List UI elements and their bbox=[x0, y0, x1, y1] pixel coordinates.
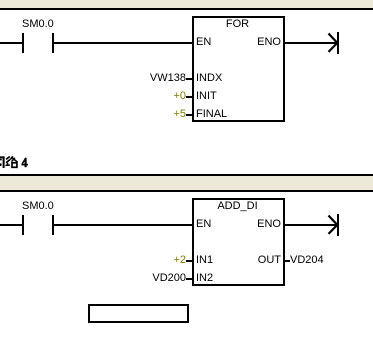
operand VD204 bbox=[290, 255, 324, 266]
network 4 comment band (beige) bbox=[0, 176, 373, 190]
pin FINAL label bbox=[196, 109, 227, 120]
pin IN1 label bbox=[196, 255, 213, 266]
contact SM0.0 right bar (network 4) bbox=[52, 215, 54, 235]
pin INIT label bbox=[196, 91, 217, 102]
tick INIT pin bbox=[186, 96, 192, 98]
tick INDX pin bbox=[186, 78, 192, 80]
node SM0.0 label (network 3) bbox=[22, 19, 54, 30]
wire contact to ADD_DI box EN (network 4) bbox=[54, 224, 192, 226]
wire contact to FOR box EN (network 3) bbox=[54, 42, 192, 44]
wire left rail to contact (network 3) bbox=[0, 42, 23, 44]
label FOR title bbox=[192, 19, 283, 30]
tick FINAL pin bbox=[186, 114, 192, 116]
pin IN2 label bbox=[196, 273, 213, 284]
network 3 separator line bbox=[0, 8, 373, 10]
wire ENO to arrow (network 4) bbox=[285, 224, 337, 226]
pin INDX label bbox=[196, 73, 222, 84]
network 4 title text (网络 4, first char clipped) bbox=[0, 154, 30, 169]
pin OUT label bbox=[192, 255, 281, 266]
network 3 comment band (beige) bbox=[0, 0, 373, 8]
empty selection rectangle (bottom) bbox=[88, 304, 189, 323]
tick OUT pin bbox=[285, 260, 290, 262]
wire left rail to contact (network 4) bbox=[0, 224, 23, 226]
arrow head (network 3) bbox=[324, 30, 340, 56]
network 4 separator bottom line bbox=[0, 190, 373, 192]
contact SM0.0 right bar (network 3) bbox=[52, 33, 54, 53]
label ADD_DI title bbox=[192, 201, 283, 212]
wire ENO to arrow (network 3) bbox=[285, 42, 337, 44]
network 4 separator top line bbox=[0, 174, 373, 176]
node SM0.0 label (network 4) bbox=[22, 201, 54, 212]
pin EN label bbox=[196, 37, 211, 48]
box U2 ADD_DI outline bbox=[192, 198, 285, 286]
operand VD200 bbox=[140, 273, 186, 284]
operand VW138 bbox=[140, 73, 186, 84]
network 4 title number 4 bbox=[20, 154, 30, 169]
contact SM0.0 left bar (network 4) bbox=[22, 215, 24, 235]
arrow head (network 4) bbox=[324, 212, 340, 238]
operand +5 bbox=[140, 109, 186, 120]
operand +2 bbox=[140, 255, 186, 266]
arrow continuation bar (network 4) bbox=[337, 214, 339, 236]
arrow continuation bar (network 3) bbox=[337, 32, 339, 54]
operand +0 bbox=[140, 91, 186, 102]
pin ENO label (ADD_DI) bbox=[192, 219, 281, 230]
tick IN1 pin bbox=[186, 260, 192, 262]
contact SM0.0 left bar (network 3) bbox=[22, 33, 24, 53]
pin EN label (ADD_DI) bbox=[196, 219, 211, 230]
box U1 FOR outline bbox=[192, 16, 285, 122]
pin ENO label bbox=[192, 37, 281, 48]
tick IN2 pin bbox=[186, 278, 192, 280]
